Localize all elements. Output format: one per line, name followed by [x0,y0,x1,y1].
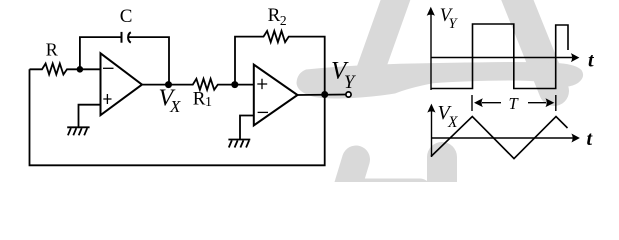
svg-text:2: 2 [280,13,287,28]
svg-text:1: 1 [205,95,212,110]
svg-text:Y: Y [344,73,356,93]
svg-text:X: X [447,114,458,131]
svg-text:R: R [268,5,281,26]
svg-text:C: C [120,6,133,27]
svg-text:R: R [193,89,206,110]
svg-text:X: X [169,97,181,116]
svg-text:R: R [46,40,58,60]
